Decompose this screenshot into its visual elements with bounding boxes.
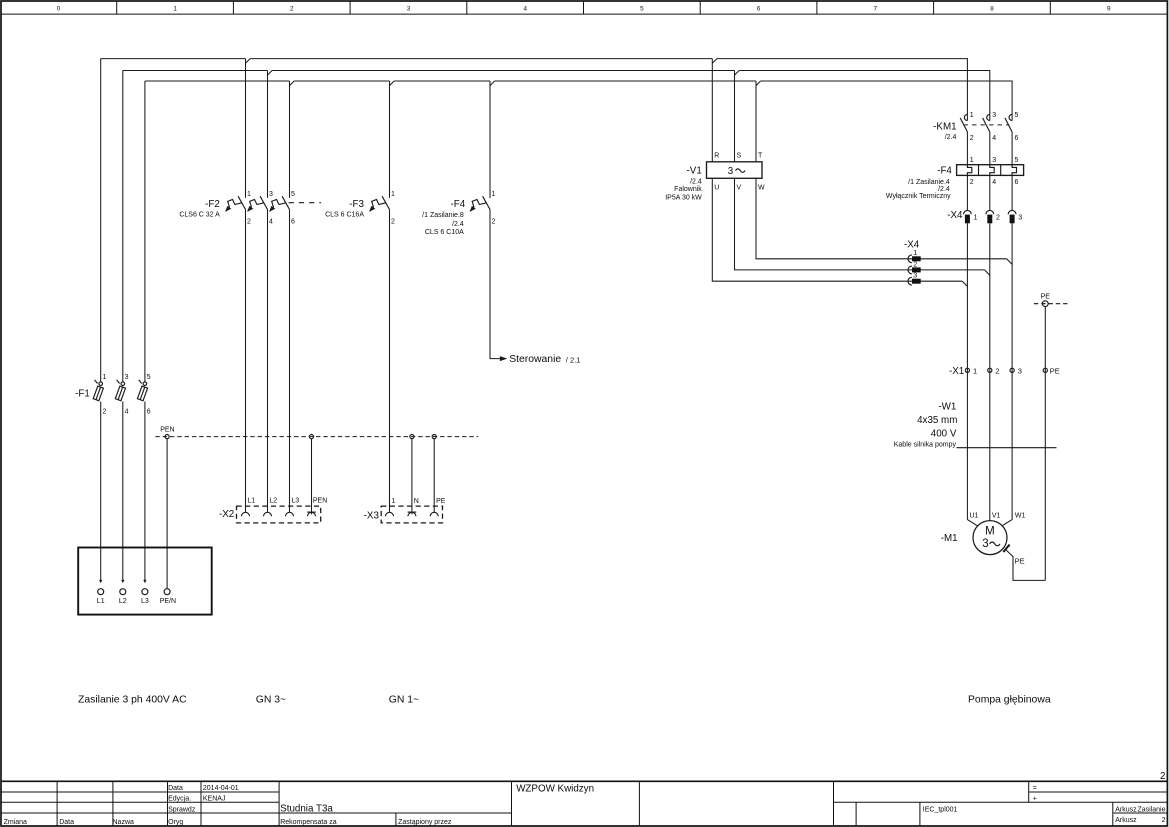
terminal X2:PEN [307,512,316,516]
svg-text:1: 1 [391,498,395,505]
wire F2 pole1 feed [245,59,247,198]
svg-text:2: 2 [492,218,496,225]
node PE tap [1034,303,1068,305]
svg-text:PE: PE [436,498,446,505]
wire PE drop to X3 [433,439,435,512]
KM1 mechanical link [964,124,1010,126]
svg-text:3: 3 [407,5,411,12]
svg-text:W: W [758,185,765,192]
svg-text:/1 Zasilanie.8: /1 Zasilanie.8 [422,212,464,219]
terminal X3:PE [430,512,438,516]
svg-text:Zasilanie: Zasilanie [1137,807,1165,814]
wire L2 bus continuation [272,70,734,72]
connector X4 pin3 (left) [908,277,921,285]
wire F1.4 to source L2 [122,402,124,581]
svg-text:-F2: -F2 [205,199,220,210]
wire L3 bus continuation [495,80,756,82]
svg-text:-M1: -M1 [941,533,958,544]
svg-text:Rekompensata za: Rekompensata za [280,819,337,826]
svg-text:Sterowanie: Sterowanie [509,354,561,365]
terminal X2:L2 [264,512,272,516]
F4 internal divider 1 [978,165,980,176]
svg-text:Kable silnika pompy: Kable silnika pompy [894,441,957,448]
svg-text:WZPOW Kwidzyn: WZPOW Kwidzyn [516,784,594,795]
source terminal L2 [120,589,126,595]
svg-text:-W1: -W1 [938,402,956,413]
svg-text:2: 2 [1162,817,1166,824]
motor PE tick [1003,545,1009,552]
svg-text:3: 3 [728,166,734,177]
wire F2 pole2 feed [267,71,269,198]
terminal X2:L3 [286,512,294,516]
contactor KM1 pole 1 [960,114,967,131]
svg-text:=: = [1033,785,1037,792]
wire L2 bus (y=70.5) [123,70,268,72]
svg-text:1: 1 [913,250,917,257]
svg-text:Wyłącznik Termiczny: Wyłącznik Termiczny [886,193,951,200]
svg-text:S: S [737,153,742,160]
wire F4.2 to X4.1 [966,175,968,210]
terminal X3:1 [386,512,394,516]
node N X3 tap [410,435,414,439]
wire L1 riser (x=100.7) [100,59,102,382]
wire L1 bus (y=58.6) [101,58,246,60]
motor M1 [973,521,1007,555]
svg-text:2: 2 [103,409,107,416]
wire L2 riser (x=122.8) [122,71,124,382]
svg-text:1: 1 [247,191,251,198]
wire end arrow L1 [99,580,102,583]
svg-text:Oryg: Oryg [168,819,183,826]
svg-text:W1: W1 [1015,513,1026,520]
wire KM1.4 to F4 [989,132,991,165]
node merge U into phase1 [962,281,967,286]
svg-text:PE: PE [1041,293,1051,300]
svg-text:3: 3 [125,374,129,381]
node PEN source [165,435,169,439]
F4 thermal element pole 3 [1012,165,1016,176]
svg-text:GN 3~: GN 3~ [256,694,286,705]
svg-text:1: 1 [973,367,977,376]
svg-text:9: 9 [1107,5,1111,12]
svg-text:5: 5 [291,191,295,198]
connector X4 pin3 (top) [1008,210,1016,223]
svg-text:6: 6 [147,409,151,416]
inverter V1 box [707,162,763,179]
svg-text:2: 2 [970,135,974,142]
connector X4 pin1 (left) [908,255,921,263]
svg-text:R: R [714,153,719,160]
svg-text:L2: L2 [269,498,277,505]
node T-junction L2/F2.2 [268,71,273,76]
svg-text:3: 3 [1018,214,1022,221]
svg-text:0: 0 [57,5,61,12]
source box [78,548,212,615]
svg-text:Data: Data [59,819,74,826]
wire F4.6 to X4.3 [1011,175,1013,210]
wire F3.2 output to X3 1 [389,210,391,513]
wire F2.6 output to X2 L3 [289,210,291,513]
wire L3 bus (y=81) [145,80,290,82]
svg-text:Zasilanie 3 ph 400V AC: Zasilanie 3 ph 400V AC [78,694,187,705]
wire F4.4 to X4.2 [989,175,991,210]
wire motor U1 entry [967,520,978,527]
svg-text:T: T [758,153,763,160]
svg-text:-X1: -X1 [949,366,964,377]
svg-text:6: 6 [291,218,295,225]
wire phase2 to motor [989,223,991,521]
wire phase1 to motor [966,223,968,519]
breaker F4 [470,196,490,212]
svg-text:PEN: PEN [160,427,174,434]
svg-text:/ 2.1: / 2.1 [566,355,581,364]
wire L3 bus to KM1 [761,81,1013,121]
svg-text:-F4: -F4 [937,165,952,176]
wire F2 pole3 feed [289,81,291,198]
wire V1 V output [735,178,985,270]
wire KM1.6 to F4 [1011,132,1013,165]
node T-junction L3/F2.3 [290,81,295,86]
svg-text:3: 3 [992,157,996,164]
wire L3 bus continuation [294,80,389,82]
svg-text:IP5A 30 kW: IP5A 30 kW [665,195,702,202]
terminal X3:N [408,512,417,516]
terminal X1:PE [1043,368,1047,372]
svg-text:CLS 6 C16A: CLS 6 C16A [325,211,364,218]
svg-text:3: 3 [913,273,917,280]
svg-text:6: 6 [1015,179,1019,186]
svg-text:8: 8 [990,5,994,12]
svg-text:-F3: -F3 [349,199,364,210]
node merge W into phase3 [1007,259,1013,265]
fuse-switch F1 pole 3 [137,380,147,401]
svg-text:2: 2 [1160,771,1165,782]
svg-text:IEC_tpl001: IEC_tpl001 [923,807,958,814]
wire PEN riser to source [166,439,168,589]
svg-text:-X3: -X3 [364,510,380,521]
svg-text:PE: PE [1050,367,1060,376]
svg-text:L2: L2 [119,598,127,605]
svg-text:2: 2 [913,261,917,268]
wire V1 U output [712,178,962,281]
node PE X3 tap [432,435,436,439]
svg-text:Zmiana: Zmiana [4,819,27,826]
svg-text:PEN: PEN [313,498,327,505]
breaker F2 pole 1 [225,196,245,212]
svg-text:-V1: -V1 [687,165,702,176]
wire L1 bus continuation [250,58,712,60]
wire F4 feed [489,81,491,198]
svg-text:1: 1 [492,191,496,198]
svg-text:V: V [737,185,742,192]
svg-text:Zastąpiony przez: Zastąpiony przez [398,819,452,826]
wire L3 bus continuation [394,80,490,82]
fuse-switch F1 pole 2 [115,380,125,401]
svg-text:Edycja.: Edycja. [168,796,191,803]
wire L3 riser (x=144.9) [144,81,146,382]
thermal overload F4 box [957,165,1024,176]
source terminal L3 [142,589,148,595]
svg-text:1: 1 [970,157,974,164]
wire F4.2 output to Sterowanie [490,210,500,359]
svg-text:2014-04-01: 2014-04-01 [203,785,239,792]
svg-text:PE: PE [1015,556,1025,565]
svg-text:5: 5 [147,374,151,381]
svg-text:4x35 mm: 4x35 mm [917,415,957,426]
F4 thermal element pole 2 [990,165,994,176]
svg-text:L1: L1 [247,498,255,505]
svg-text:2: 2 [996,214,1000,221]
node T-junction L2/V1-S [735,71,740,76]
svg-text:L3: L3 [291,498,299,505]
wire V1 T feed [755,81,757,162]
contactor KM1 pole 3 [1005,114,1012,131]
svg-text:4: 4 [992,179,996,186]
svg-text:N: N [414,498,419,505]
wire F2.2 output to X2 L1 [245,210,247,513]
terminal X1:2 [988,368,992,372]
svg-text:400 V: 400 V [931,428,957,439]
connector X4 pin2 (left) [908,266,921,274]
svg-text:6: 6 [1015,135,1019,142]
svg-text:L1: L1 [97,598,105,605]
breaker F2 pole 3 [269,196,289,212]
source terminal L1 [98,589,104,595]
svg-text:4: 4 [992,135,996,142]
F4 thermal element pole 1 [967,165,971,176]
svg-text:5: 5 [1015,157,1019,164]
wire motor W1 entry [1002,520,1013,527]
svg-text:Data: Data [168,785,183,792]
svg-text:U1: U1 [970,513,979,520]
wire PEN drop to X2 [311,439,313,514]
wire L2 bus to KM1 [739,71,990,121]
svg-text:/2.4: /2.4 [452,221,464,228]
svg-text:-X4: -X4 [947,210,963,221]
svg-text:M: M [985,525,995,537]
svg-text:L3: L3 [141,598,149,605]
contactor KM1 pole 2 [983,114,990,131]
svg-text:2: 2 [995,367,999,376]
F4 internal divider 2 [1000,165,1002,176]
wire PE down [1044,307,1046,581]
svg-text:2: 2 [290,5,294,12]
F2 mechanical link [289,202,321,204]
svg-text:/2.4: /2.4 [945,134,957,141]
svg-text:GN 1~: GN 1~ [389,694,419,705]
wire L1 bus to KM1 [717,59,968,121]
svg-text:1: 1 [970,112,974,119]
svg-text:/2.4: /2.4 [690,178,702,185]
svg-text:Sprawdz: Sprawdz [168,806,196,813]
svg-text:2: 2 [247,218,251,225]
svg-text:PE/N: PE/N [160,598,176,605]
node T-junction L1/V1-R [712,59,717,64]
connector X4 pin1 (top) [964,210,972,223]
svg-text:/2.4: /2.4 [938,186,950,193]
svg-text:CLS 6 C10A: CLS 6 C10A [425,229,464,236]
PEN distribution dashed line [155,436,478,438]
svg-text:3: 3 [269,191,273,198]
svg-text:7: 7 [874,5,878,12]
svg-text:Pompa głębinowa: Pompa głębinowa [968,694,1051,705]
svg-text:3: 3 [1018,367,1022,376]
svg-text:Falownik: Falownik [674,186,702,193]
svg-text:1: 1 [173,5,177,12]
wire KM1.2 to F4 [966,132,968,165]
wire end arrow L3 [143,580,146,583]
svg-text:1: 1 [391,191,395,198]
svg-text:2: 2 [970,179,974,186]
svg-text:-KM1: -KM1 [933,122,956,133]
breaker F3 [369,196,389,212]
cable W1 marker line [957,447,1057,449]
arrow Sterowanie [500,356,508,361]
wire end arrow L2 [121,580,124,583]
svg-text:6: 6 [757,5,761,12]
terminal strip X2 dashed box [237,506,321,523]
svg-text:Studnia T3a: Studnia T3a [280,804,333,815]
wire F1.6 to source L3 [144,402,146,581]
node T-junction L3/F4 [490,81,495,86]
svg-text:-X2: -X2 [219,509,234,520]
node merge V into phase2 [985,270,990,275]
fuse-switch F1 pole 1 [93,380,103,401]
wire F1.2 to source L1 [100,402,102,581]
svg-text:-X4: -X4 [904,240,920,251]
wire phase3 to motor [1011,223,1013,519]
node T-junction L1/F2.1 [246,59,251,64]
svg-text:4: 4 [125,409,129,416]
svg-text:3: 3 [992,112,996,119]
svg-text:Arkusz: Arkusz [1115,817,1137,824]
svg-text:4: 4 [523,5,527,12]
svg-text:2: 2 [391,218,395,225]
svg-text:Arkusz: Arkusz [1115,807,1137,814]
wire V1 S feed [734,71,736,162]
svg-text:1: 1 [103,374,107,381]
connector X4 pin2 (top) [986,210,994,223]
svg-text:1: 1 [974,214,978,221]
breaker F2 pole 2 [247,196,267,212]
wire V1 R feed [711,59,713,162]
terminal X1:1 [965,368,969,372]
terminal X1:3 [1010,368,1014,372]
svg-text:V1: V1 [992,513,1001,520]
svg-text:5: 5 [1015,112,1019,119]
svg-text:5: 5 [640,5,644,12]
wire F2.4 output to X2 L2 [267,210,269,513]
svg-text:+: + [1033,796,1037,803]
source terminal PE/N [164,589,170,595]
svg-text:CLS6 C 32 A: CLS6 C 32 A [179,211,220,218]
node PEN X2 tap [309,435,313,439]
node T-junction L3/V1-T [756,81,761,86]
svg-text:3: 3 [982,538,988,550]
terminal X2:L1 [242,512,250,516]
svg-text:4: 4 [269,218,273,225]
svg-text:U: U [714,185,719,192]
svg-text:-F4: -F4 [450,199,465,210]
title block [1,771,1167,826]
wire N drop to X3 [411,439,413,514]
wire F3 feed [389,81,391,198]
svg-text:Nazwa: Nazwa [113,819,135,826]
svg-text:KENAJ: KENAJ [203,796,226,803]
node T-junction L3/F3 [390,81,395,86]
motor PE connection [1005,549,1045,580]
wire V1 W output [756,178,1007,258]
terminal strip X3 dashed box [381,506,442,523]
svg-text:-F1: -F1 [75,388,90,399]
